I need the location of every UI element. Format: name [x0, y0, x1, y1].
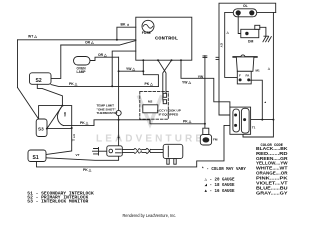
- svg-text:GRAY......GY: GRAY......GY: [256, 191, 288, 196]
- magnetron M1: [233, 56, 257, 58]
- svg-text:GY: GY: [220, 43, 224, 48]
- T1 secondary winding: [241, 108, 249, 133]
- junction hv loop: [272, 119, 274, 121]
- svg-text:DM: DM: [248, 40, 253, 44]
- wire fork to terminal box: [99, 150, 107, 152]
- wire YW right path: [181, 60, 230, 107]
- overload OL: [233, 9, 257, 17]
- svg-text:THERMOSTAT: THERMOSTAT: [97, 111, 118, 115]
- svg-text:VT: VT: [76, 153, 80, 157]
- oven lamp: [74, 57, 91, 66]
- wire outer loop to T1: [219, 3, 276, 115]
- junction PK2/FM: [204, 123, 206, 125]
- thermostat wire vertical: [118, 57, 120, 146]
- junction BK/WT: [116, 39, 118, 41]
- svg-text:S3: S3: [38, 127, 44, 132]
- junction pins on control bottom: [142, 59, 144, 61]
- T1 primary winding: [233, 109, 240, 132]
- svg-text:△ - 20 GAUGE: △ - 20 GAUGE: [205, 178, 235, 183]
- wire S1 right VT: [46, 156, 119, 160]
- plug prongs: [167, 159, 169, 165]
- thermostat TCO: [116, 110, 121, 115]
- wire OR upper: [61, 41, 136, 46]
- hv transformer T1 outer: [230, 107, 251, 134]
- junction S3 right: [46, 128, 48, 130]
- wire S3 loop: [39, 106, 72, 128]
- wire WT top left: [18, 39, 136, 41]
- svg-text:IF EQUIPPED: IF EQUIPPED: [159, 112, 179, 116]
- wire FM drop: [204, 56, 206, 129]
- svg-text:YW △: YW △: [126, 67, 135, 71]
- wire BK into control: [117, 27, 136, 40]
- svg-text:YW: YW: [198, 75, 204, 79]
- svg-text:S1: S1: [33, 155, 39, 161]
- wire crossing pair from control: [158, 60, 172, 101]
- wire YW control bottom: [143, 60, 158, 86]
- wire OL to DM: [238, 15, 241, 33]
- svg-text:S2: S2: [36, 78, 42, 84]
- svg-text:RD: RD: [63, 112, 67, 117]
- wire DM to ground: [260, 27, 266, 36]
- svg-text:WT △: WT △: [28, 35, 37, 39]
- tilt motor M2: [143, 105, 158, 113]
- svg-text:S3 - INTERLOCK MONITOR: S3 - INTERLOCK MONITOR: [27, 199, 88, 204]
- svg-text:* - COLOR MAY VARY: * - COLOR MAY VARY: [202, 167, 247, 172]
- wire S2 bottom to node: [37, 84, 62, 105]
- cord break squiggle: [134, 148, 142, 153]
- wire RD curve to PK2: [57, 106, 63, 126]
- svg-text:M1: M1: [256, 69, 260, 73]
- svg-text:▲ - 16 GAUGE: ▲ - 16 GAUGE: [205, 189, 235, 194]
- connector pads: [163, 93, 166, 97]
- svg-text:FUSE: FUSE: [142, 31, 152, 35]
- wire FA to right loop: [249, 80, 263, 119]
- junction OR2/PK: [111, 85, 113, 87]
- fuse F1: [142, 20, 154, 32]
- junction VT node: [71, 127, 73, 129]
- junction thermostat/PK2: [118, 119, 120, 121]
- connector ticks on outer loop: [216, 57, 219, 59]
- svg-text:F: F: [239, 74, 241, 78]
- svg-text:YW △: YW △: [182, 81, 191, 85]
- switch S1: [28, 150, 46, 162]
- svg-text:BK ▲: BK ▲: [121, 23, 130, 27]
- ground chassis: [263, 36, 271, 42]
- junction lamp node: [118, 70, 120, 72]
- ground prong fork: [93, 148, 99, 156]
- svg-text:M2: M2: [148, 100, 153, 104]
- svg-text:CONTROL: CONTROL: [155, 35, 178, 41]
- plug body: [163, 144, 183, 158]
- svg-text:OR △: OR △: [98, 53, 107, 57]
- dashed accessory box: [140, 91, 169, 119]
- svg-text:PK △: PK △: [83, 168, 92, 172]
- wire diagonal S3 node: [47, 106, 63, 129]
- drive motor DM: [241, 29, 259, 37]
- svg-text:LEADVENTURE: LEADVENTURE: [96, 134, 205, 145]
- junction on thermostat wire: [118, 137, 120, 139]
- svg-text:LAMP: LAMP: [77, 70, 87, 74]
- svg-text:△: △: [226, 31, 230, 35]
- wire S2 riser: [51, 45, 61, 78]
- svg-text:▲: ▲: [264, 100, 267, 104]
- wire PK main: [51, 85, 158, 87]
- terminal box: [107, 146, 123, 156]
- svg-text:PK △: PK △: [183, 120, 192, 124]
- wire S1 bottom bus: [37, 125, 233, 166]
- svg-text:PK △: PK △: [145, 82, 154, 86]
- switch S2: [30, 73, 52, 85]
- svg-text:◢ - 18 GAUGE: ◢ - 18 GAUGE: [205, 183, 235, 188]
- svg-text:T1: T1: [252, 125, 256, 129]
- control box U1: [136, 17, 192, 60]
- power cord lines: [122, 149, 134, 152]
- wire lamp to node: [90, 57, 119, 60]
- switch S3: [36, 119, 47, 137]
- watermark logo V: [139, 97, 161, 124]
- junction S2 node: [61, 105, 63, 107]
- svg-text:PK △: PK △: [80, 121, 89, 125]
- wire S3 right horizontal: [47, 128, 72, 130]
- svg-text:VT △: VT △: [72, 134, 76, 142]
- junction right loop: [261, 119, 263, 121]
- fan motor FM: [203, 128, 209, 134]
- junction YW: [142, 70, 144, 72]
- svg-text:OL: OL: [243, 4, 248, 8]
- svg-text:△: △: [267, 67, 271, 71]
- wire OR2 into control: [112, 51, 136, 86]
- svg-text:PK △: PK △: [69, 82, 78, 86]
- wire diagonal to S3: [18, 88, 39, 120]
- wire OL right loop: [243, 12, 276, 137]
- svg-text:OR △: OR △: [85, 41, 94, 45]
- wire left vertical: [17, 40, 19, 88]
- wire GY: [225, 12, 238, 77]
- svg-text:FM: FM: [213, 138, 218, 142]
- svg-text:Rendered by LeadVenture, Inc.: Rendered by LeadVenture, Inc.: [123, 213, 177, 218]
- wire PK2 stepped: [63, 120, 205, 126]
- wire YW horizontal: [119, 70, 144, 72]
- wire VT vertical to S1: [46, 128, 72, 155]
